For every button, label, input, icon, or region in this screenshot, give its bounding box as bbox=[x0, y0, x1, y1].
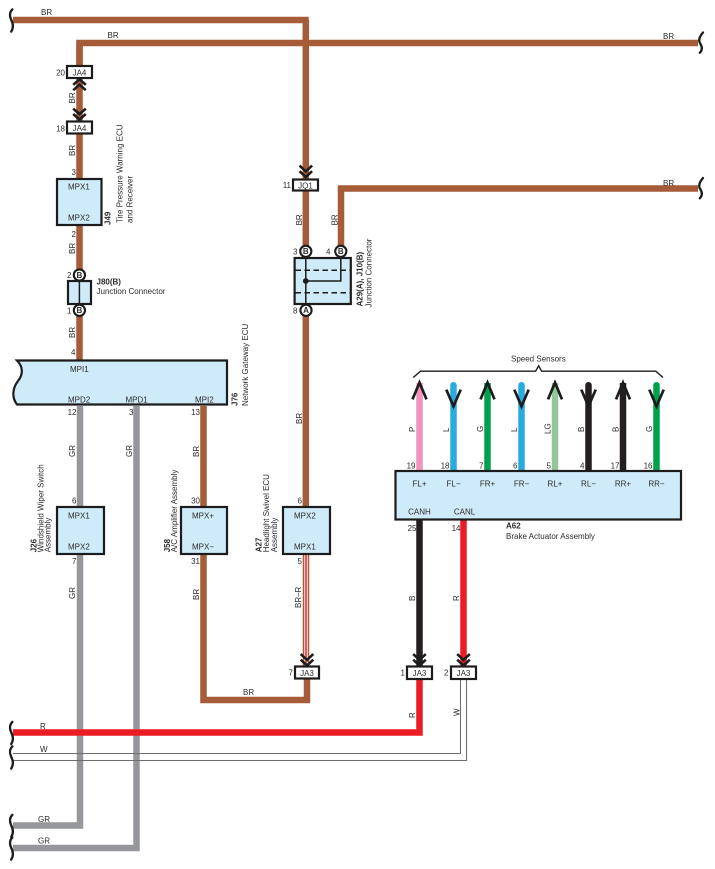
svg-text:4: 4 bbox=[326, 248, 331, 257]
svg-text:MPD1: MPD1 bbox=[126, 396, 149, 405]
svg-text:17: 17 bbox=[611, 462, 620, 471]
svg-text:W: W bbox=[40, 745, 48, 754]
wire W white below JA3 pin 2 down and left to edge bbox=[13, 679, 467, 761]
svg-text:2: 2 bbox=[444, 669, 449, 678]
wire BR bus C right horizontal with corner at x=341 bbox=[341, 189, 698, 260]
svg-text:R: R bbox=[452, 595, 461, 601]
svg-text:1: 1 bbox=[401, 669, 406, 678]
wire BR vertical center to JQ1 and junction A29 bbox=[303, 20, 310, 508]
A29 junction dot bbox=[303, 278, 309, 284]
arrow down (RL-) bbox=[581, 390, 595, 407]
J80 divider bbox=[78, 282, 80, 303]
chevron down pair (JA4) bbox=[73, 109, 86, 120]
connector JA3 pin 7 box bbox=[295, 667, 319, 679]
svg-text:GR: GR bbox=[68, 587, 77, 599]
svg-text:5: 5 bbox=[547, 462, 552, 471]
wire L (FL-) blue bbox=[450, 385, 457, 471]
svg-text:L: L bbox=[510, 427, 519, 432]
svg-text:and Receiver: and Receiver bbox=[126, 176, 135, 223]
arrow up (RR+) bbox=[616, 383, 630, 400]
chevron down pair (JA3 2) bbox=[457, 654, 470, 665]
ECU box A62 Brake Actuator Assembly bbox=[396, 471, 682, 520]
svg-text:MPX1: MPX1 bbox=[294, 543, 316, 552]
svg-text:BR: BR bbox=[68, 243, 77, 254]
svg-text:13: 13 bbox=[191, 408, 200, 417]
svg-text:LG: LG bbox=[544, 423, 553, 434]
svg-text:JQ1: JQ1 bbox=[298, 182, 313, 191]
svg-text:MPD2: MPD2 bbox=[68, 396, 91, 405]
svg-text:RL−: RL− bbox=[581, 480, 596, 489]
svg-text:5: 5 bbox=[298, 557, 303, 566]
svg-text:Tire Pressure Warning ECU: Tire Pressure Warning ECU bbox=[116, 124, 125, 223]
svg-text:Assembly: Assembly bbox=[44, 518, 53, 553]
svg-text:JA4: JA4 bbox=[73, 69, 87, 78]
svg-text:B: B bbox=[408, 596, 417, 601]
arrow down (FL-) bbox=[446, 390, 460, 407]
svg-text:7: 7 bbox=[72, 557, 77, 566]
svg-text:FR+: FR+ bbox=[480, 480, 496, 489]
break squiggle left (R) bbox=[10, 722, 13, 744]
svg-text:3: 3 bbox=[293, 248, 298, 257]
svg-text:6: 6 bbox=[298, 497, 303, 506]
arrow up (FR+) bbox=[481, 383, 495, 400]
svg-text:FR−: FR− bbox=[514, 480, 530, 489]
svg-text:BR: BR bbox=[192, 589, 201, 600]
svg-text:J80(B): J80(B) bbox=[97, 278, 122, 287]
break squiggle left (GR upper) bbox=[10, 815, 13, 837]
svg-text:2: 2 bbox=[72, 230, 77, 239]
svg-text:W: W bbox=[453, 708, 462, 716]
wire BR bus B horizontal with corner at x=79.5 bbox=[80, 43, 699, 67]
arrow down (RR-) bbox=[649, 390, 663, 407]
svg-text:6: 6 bbox=[72, 497, 77, 506]
svg-text:J76: J76 bbox=[231, 392, 240, 406]
svg-text:R: R bbox=[408, 712, 417, 718]
ring terminal B2 bbox=[74, 269, 85, 280]
ring terminal A8 bbox=[300, 305, 311, 316]
svg-text:MPX−: MPX− bbox=[192, 543, 214, 552]
svg-text:BR: BR bbox=[663, 32, 674, 41]
svg-text:A/C Amplifier Assembly: A/C Amplifier Assembly bbox=[170, 470, 179, 553]
connector JQ1 box bbox=[293, 180, 318, 191]
svg-text:1: 1 bbox=[67, 307, 72, 316]
svg-text:CANH: CANH bbox=[408, 508, 431, 517]
ECU box A27 Headlight Swivel ECU bbox=[283, 507, 330, 554]
svg-text:BR: BR bbox=[663, 179, 674, 188]
wire B (RL-) black bbox=[585, 385, 592, 471]
wire P (FL+) pink bbox=[416, 383, 423, 471]
svg-text:CANL: CANL bbox=[454, 508, 476, 517]
wire GR from MPD1 pin 3 down and left bbox=[13, 406, 137, 848]
connector JA4 pin 18 box bbox=[67, 122, 92, 134]
svg-text:JA4: JA4 bbox=[73, 124, 87, 133]
svg-text:RR−: RR− bbox=[648, 480, 665, 489]
svg-text:L: L bbox=[442, 427, 451, 432]
svg-text:A62: A62 bbox=[506, 522, 521, 531]
chevron down pair (JA3 1) bbox=[413, 654, 426, 665]
svg-text:A29(A), J10(B): A29(A), J10(B) bbox=[355, 251, 364, 306]
svg-text:19: 19 bbox=[407, 462, 416, 471]
break squiggle left (GR lower) bbox=[10, 837, 13, 859]
svg-text:4: 4 bbox=[580, 462, 585, 471]
break squiggle right (BR bus C) bbox=[699, 178, 703, 198]
wire BR-R striped from A27 pin 5 to JA3 pin 7 bbox=[303, 554, 310, 667]
ECU box J76 Network Gateway ECU (torn left edge) bbox=[13, 361, 227, 405]
svg-text:B: B bbox=[338, 247, 344, 256]
svg-text:BR: BR bbox=[331, 214, 340, 225]
svg-text:JA3: JA3 bbox=[457, 669, 471, 678]
svg-text:MPX2: MPX2 bbox=[68, 214, 90, 223]
svg-text:MPX2: MPX2 bbox=[294, 512, 316, 521]
A29 interior vertical line bbox=[305, 258, 307, 304]
junction connector A29(A) J10(B) box bbox=[295, 258, 351, 304]
svg-text:R: R bbox=[40, 722, 46, 731]
svg-text:Assembly: Assembly bbox=[270, 518, 279, 553]
svg-text:Junction Connector: Junction Connector bbox=[365, 238, 374, 307]
ring terminal B3 bbox=[300, 246, 311, 257]
svg-text:12: 12 bbox=[68, 408, 77, 417]
break squiggle left (BR bus A) bbox=[10, 9, 13, 31]
wire BR left vertical through JA4/J49/J80 to gateway bbox=[76, 43, 83, 360]
ECU box J58 A/C Amplifier bbox=[181, 507, 227, 554]
svg-text:G: G bbox=[645, 426, 654, 432]
svg-text:BR: BR bbox=[68, 145, 77, 156]
svg-text:4: 4 bbox=[71, 348, 76, 357]
junction connector J80(B) box bbox=[68, 281, 91, 304]
A29 interior dashed line upper bbox=[296, 269, 351, 271]
svg-text:14: 14 bbox=[452, 524, 461, 533]
svg-text:11: 11 bbox=[283, 181, 292, 190]
arrow up (RL+) bbox=[548, 383, 562, 400]
svg-text:BR: BR bbox=[295, 413, 304, 424]
wire R CANL from pin 14 to JA3 pin 2 bbox=[460, 520, 467, 667]
svg-text:GR: GR bbox=[125, 445, 134, 457]
svg-text:BR: BR bbox=[243, 688, 254, 697]
arrow up (FL+) bbox=[413, 383, 427, 400]
svg-text:JA3: JA3 bbox=[413, 669, 427, 678]
svg-text:2: 2 bbox=[67, 271, 72, 280]
wire L (FR-) blue bbox=[518, 385, 525, 471]
wire GR from MPD2 pin 12 through J26 down and left bbox=[13, 406, 80, 826]
svg-text:7: 7 bbox=[479, 462, 484, 471]
ring terminal B4 bbox=[335, 246, 346, 257]
chevron down pair (JQ1) bbox=[300, 166, 313, 177]
svg-text:Network Gateway ECU: Network Gateway ECU bbox=[241, 324, 250, 406]
break squiggle right (BR bus B) bbox=[699, 33, 703, 53]
wire BR from MPI2 pin 13 down, corner to JA3 pin 7 bbox=[204, 406, 308, 700]
chevron down pair (JA3 7) bbox=[301, 654, 314, 665]
svg-text:6: 6 bbox=[513, 462, 518, 471]
wire G (RR-) green bbox=[653, 385, 660, 471]
wire B CANH from pin 25 to JA3 pin 1 bbox=[416, 520, 423, 667]
svg-text:18: 18 bbox=[56, 125, 65, 134]
svg-text:B: B bbox=[303, 247, 309, 256]
svg-text:BR: BR bbox=[68, 92, 77, 103]
brace speed sensors bbox=[413, 366, 663, 378]
svg-text:Brake Actuator Assembly: Brake Actuator Assembly bbox=[506, 532, 595, 541]
svg-text:BR: BR bbox=[68, 327, 77, 338]
svg-text:16: 16 bbox=[644, 462, 653, 471]
svg-text:7: 7 bbox=[289, 669, 294, 678]
A29 interior elbow line bbox=[306, 259, 341, 281]
svg-text:FL−: FL− bbox=[446, 480, 460, 489]
ring terminal B1 bbox=[74, 305, 85, 316]
svg-text:BR–R: BR–R bbox=[294, 586, 303, 608]
svg-text:MPI2: MPI2 bbox=[195, 396, 214, 405]
svg-text:MPX2: MPX2 bbox=[68, 543, 90, 552]
arrow down (FR-) bbox=[514, 390, 528, 407]
ECU box J26 Windshield Wiper Switch bbox=[57, 507, 104, 554]
svg-text:B: B bbox=[612, 427, 621, 432]
svg-text:RL+: RL+ bbox=[548, 480, 563, 489]
connector JA3 pin 1 box bbox=[407, 667, 432, 680]
svg-text:MPI1: MPI1 bbox=[70, 365, 89, 374]
chevron up pair (JA4) bbox=[73, 79, 86, 90]
svg-text:18: 18 bbox=[441, 462, 450, 471]
svg-text:RR+: RR+ bbox=[615, 480, 632, 489]
wire BR bus A horizontal top bbox=[13, 17, 309, 24]
svg-text:B: B bbox=[577, 427, 586, 432]
svg-text:30: 30 bbox=[191, 497, 200, 506]
svg-text:MPX1: MPX1 bbox=[68, 512, 90, 521]
svg-text:Speed Sensors: Speed Sensors bbox=[511, 355, 566, 364]
connector JA4 pin 20 box bbox=[67, 66, 92, 78]
svg-text:B: B bbox=[77, 306, 83, 315]
svg-text:GR: GR bbox=[38, 815, 50, 824]
svg-text:GR: GR bbox=[68, 445, 77, 457]
svg-text:G: G bbox=[476, 426, 485, 432]
svg-text:MPX+: MPX+ bbox=[192, 512, 214, 521]
svg-text:B: B bbox=[77, 271, 83, 280]
svg-text:25: 25 bbox=[408, 524, 417, 533]
wire B (RR+) black bbox=[620, 383, 627, 471]
svg-text:MPX1: MPX1 bbox=[68, 183, 90, 192]
svg-text:FL+: FL+ bbox=[412, 480, 426, 489]
svg-text:BR: BR bbox=[192, 446, 201, 457]
svg-text:BR: BR bbox=[108, 31, 119, 40]
svg-text:BR: BR bbox=[41, 8, 52, 17]
wire LG (RL+) light green bbox=[552, 383, 559, 471]
svg-text:BR: BR bbox=[295, 214, 304, 225]
svg-text:3: 3 bbox=[129, 408, 134, 417]
A29 interior dashed line lower bbox=[296, 292, 351, 294]
svg-text:GR: GR bbox=[38, 837, 50, 846]
svg-text:Junction Connector: Junction Connector bbox=[97, 287, 166, 296]
break squiggle left (W) bbox=[10, 746, 13, 768]
connector JA3 pin 2 box bbox=[451, 667, 476, 680]
wire R below JA3 pin 1 down and left to edge bbox=[13, 679, 420, 733]
svg-text:A: A bbox=[303, 306, 309, 315]
svg-text:J49: J49 bbox=[104, 211, 113, 225]
svg-text:JA3: JA3 bbox=[300, 669, 314, 678]
svg-text:8: 8 bbox=[293, 307, 298, 316]
svg-text:3: 3 bbox=[72, 168, 77, 177]
svg-text:P: P bbox=[408, 427, 417, 432]
svg-text:31: 31 bbox=[191, 557, 200, 566]
wire G (FR+) green bbox=[484, 383, 491, 471]
ECU box J49 Tire Pressure Warning ECU bbox=[57, 179, 102, 225]
svg-text:20: 20 bbox=[56, 69, 65, 78]
